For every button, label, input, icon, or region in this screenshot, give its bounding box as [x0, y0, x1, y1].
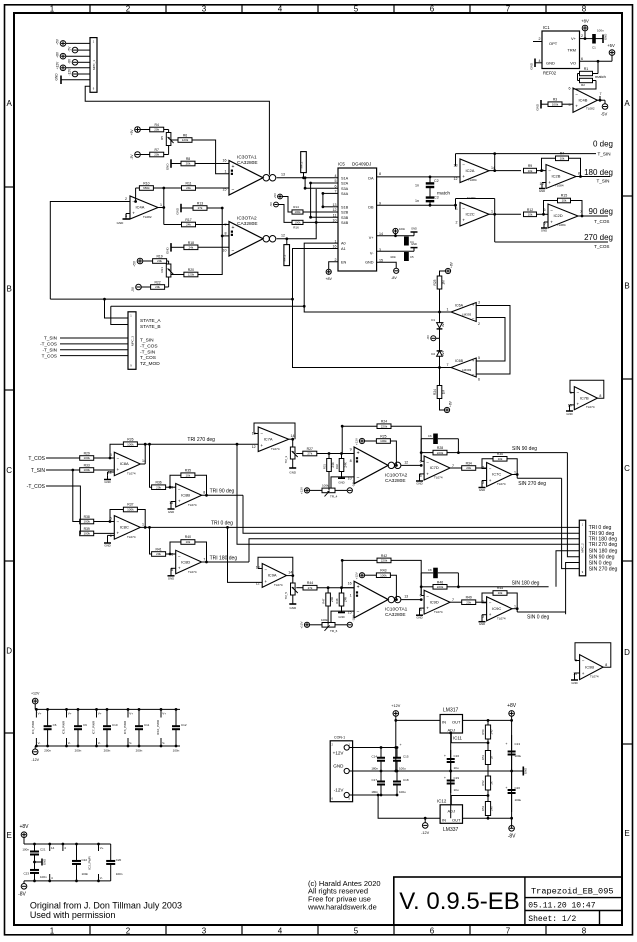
- svg-text:R41: R41: [155, 548, 161, 552]
- power terminal +8V at R23: [445, 261, 453, 273]
- op-amp IC2C TL084: [456, 196, 494, 226]
- svg-text:6: 6: [569, 87, 571, 91]
- svg-text:1n: 1n: [415, 184, 419, 188]
- svg-text:10k: 10k: [185, 540, 190, 544]
- svg-text:V-: V-: [100, 876, 103, 880]
- svg-text:7: 7: [452, 598, 454, 602]
- power terminal -12V decoupling rail: [31, 746, 39, 762]
- svg-text:T_SIN: T_SIN: [44, 336, 57, 341]
- svg-text:+: +: [548, 180, 551, 185]
- svg-text:R2: R2: [581, 83, 585, 87]
- svg-text:TL074: TL074: [586, 405, 595, 409]
- svg-text:S4A: S4A: [341, 192, 349, 196]
- svg-text:90 deg: 90 deg: [589, 207, 613, 216]
- svg-text:D: D: [624, 648, 630, 657]
- resistor R37 100k feedback IC8C: [110, 503, 147, 529]
- power terminal +12V at TR_A: [300, 487, 310, 494]
- svg-text:TRM: TRM: [567, 48, 576, 53]
- svg-text:20k: 20k: [156, 552, 161, 556]
- svg-text:100u: 100u: [399, 767, 406, 771]
- svg-text:8: 8: [203, 491, 205, 495]
- svg-text:1: 1: [50, 927, 55, 936]
- svg-text:GND: GND: [411, 227, 417, 231]
- power terminal -5V pulls: [269, 202, 292, 222]
- svg-text:GND: GND: [416, 482, 422, 486]
- svg-text:TL074: TL074: [274, 583, 283, 587]
- resistor R18 24k to OTA2 pin10: [166, 241, 230, 254]
- resistor R25 100k with +12V: [355, 435, 397, 466]
- svg-text:13: 13: [404, 595, 408, 599]
- svg-text:TL074: TL074: [127, 472, 136, 476]
- svg-text:-T_SIN: -T_SIN: [42, 348, 57, 353]
- svg-text:-T_COS: -T_COS: [140, 343, 158, 349]
- svg-text:TL082: TL082: [586, 107, 595, 111]
- svg-text:8: 8: [582, 5, 587, 14]
- svg-text:C2: C2: [434, 179, 439, 183]
- svg-text:+: +: [232, 164, 235, 170]
- svg-text:CA3280E: CA3280E: [237, 221, 258, 227]
- trimmer R21: [160, 264, 174, 277]
- svg-text:+: +: [444, 754, 446, 758]
- svg-text:-5V: -5V: [601, 112, 608, 117]
- resistor R33 100k: [80, 464, 94, 473]
- svg-text:GND: GND: [524, 768, 528, 774]
- terminal -12V CON-1: [334, 788, 350, 798]
- wire IC9C output: [512, 607, 519, 610]
- svg-text:2: 2: [581, 34, 583, 38]
- wire IC5 GND to -8V: [377, 262, 397, 268]
- svg-text:TL074: TL074: [497, 616, 506, 620]
- resistor R48 vertical: [335, 588, 347, 619]
- svg-text:OUT: OUT: [452, 818, 461, 823]
- svg-text:−: −: [472, 317, 475, 322]
- svg-text:100k: 100k: [294, 221, 301, 225]
- ground at IC8B: [168, 502, 176, 515]
- svg-text:C13: C13: [515, 742, 521, 746]
- svg-text:GND: GND: [541, 229, 547, 233]
- svg-text:V+: V+: [369, 236, 375, 240]
- svg-text:GND: GND: [176, 207, 180, 215]
- wire +8V / -8V rails row E: [24, 844, 111, 881]
- ground at IC9C: [479, 615, 487, 627]
- svg-text:TL074: TL074: [188, 503, 197, 507]
- svg-text:100k: 100k: [380, 573, 387, 577]
- svg-text:−: −: [232, 248, 235, 254]
- resistor R49 20k: [450, 596, 487, 605]
- svg-text:R12: R12: [527, 208, 533, 212]
- svg-text:C12: C12: [181, 723, 187, 727]
- power terminal -5V bias bottom: [131, 284, 151, 292]
- svg-text:+: +: [505, 742, 507, 746]
- svg-text:C20: C20: [515, 786, 521, 790]
- wires signal inputs to state connector: [60, 338, 128, 356]
- trimmer pot TR vertical at IC7A output: [284, 439, 298, 474]
- wire IC5 DA to IC2A: [377, 176, 460, 179]
- svg-text:8: 8: [225, 232, 227, 236]
- svg-text:+12V: +12V: [391, 704, 400, 708]
- title block box: [394, 877, 622, 925]
- svg-text:100k: 100k: [380, 439, 387, 443]
- power terminal -12V PSU: [421, 817, 429, 835]
- power terminal -8V rail row E: [18, 881, 27, 898]
- resistor R11 24k to OTA1 pin15: [182, 182, 230, 191]
- wire R33 to IC8A pin: [94, 469, 115, 471]
- power terminal +12V: [56, 61, 90, 71]
- OTA IC3OTA1 CA3280E: [223, 155, 286, 196]
- svg-text:IC9A: IC9A: [268, 573, 277, 578]
- svg-text:GND: GND: [289, 471, 297, 475]
- trimmer pot TR vertical at IC9A output: [284, 576, 298, 610]
- op-amp IC9D TL074: [420, 590, 454, 614]
- ground at IC4A pin3: [117, 214, 130, 226]
- svg-text:GND: GND: [55, 73, 59, 81]
- wire STATE_B from bus to connector: [111, 306, 304, 324]
- power terminal +5V: [56, 38, 90, 46]
- wire IC5 A1 to comparator IC6B output: [291, 249, 441, 369]
- svg-text:−: −: [357, 476, 360, 482]
- svg-text:TR_6: TR_6: [330, 629, 338, 633]
- svg-text:20k: 20k: [466, 600, 471, 604]
- wire decoupling rails +12V/-12V: [35, 709, 180, 746]
- resistor R41 20k input IC8D: [148, 526, 176, 556]
- trimmer R5: [160, 130, 174, 146]
- resistor divider chain R50-R53: [487, 720, 489, 818]
- svg-text:R21: R21: [160, 267, 164, 273]
- svg-text:−: −: [117, 456, 120, 461]
- svg-text:6: 6: [430, 5, 435, 14]
- svg-text:R36: R36: [155, 481, 161, 485]
- svg-text:GND: GND: [530, 62, 534, 70]
- svg-text:-12V: -12V: [31, 758, 39, 762]
- svg-text:+8V: +8V: [507, 703, 517, 709]
- svg-text:6: 6: [420, 459, 422, 463]
- svg-text:C5: C5: [410, 255, 414, 259]
- svg-text:-5V: -5V: [131, 286, 135, 292]
- wires IC5 S pins crisscross: [303, 176, 338, 222]
- svg-text:R7: R7: [155, 148, 159, 152]
- svg-text:www.haraldswerk.de: www.haraldswerk.de: [307, 903, 377, 912]
- svg-text:DB: DB: [368, 205, 374, 209]
- wire TRI 180 deg to bus: [202, 561, 249, 563]
- power terminal +8V rail row E: [19, 824, 29, 844]
- ground at IC2B pin10: [539, 183, 546, 194]
- svg-text:100n: 100n: [82, 872, 89, 876]
- resistor R31 vertical: [323, 454, 335, 491]
- svg-text:IC2_PWR: IC2_PWR: [88, 856, 92, 870]
- svg-text:IC3OTA1: IC3OTA1: [237, 155, 257, 161]
- resistor R17 24k to OTA2 pin9: [164, 218, 229, 227]
- svg-text:CA3280E: CA3280E: [237, 160, 258, 166]
- svg-text:Sheet: 1/2: Sheet: 1/2: [528, 915, 576, 924]
- wire LM317 ADJ to divider: [451, 733, 489, 744]
- resistor R12 10k: [524, 208, 537, 217]
- svg-text:15: 15: [348, 611, 352, 615]
- svg-text:CON-1: CON-1: [334, 736, 345, 740]
- svg-text:13: 13: [281, 173, 285, 177]
- svg-text:IC8B: IC8B: [181, 492, 190, 497]
- svg-text:24k: 24k: [186, 186, 191, 190]
- test point MP_2: [283, 239, 290, 266]
- svg-text:C: C: [6, 466, 12, 475]
- svg-text:+12V: +12V: [333, 751, 345, 756]
- svg-text:8: 8: [582, 927, 587, 936]
- svg-text:T_COS: T_COS: [28, 456, 45, 462]
- svg-text:24k: 24k: [188, 246, 193, 250]
- svg-text:R3: R3: [553, 98, 557, 102]
- wire IC5 A0 to comparator IC6A output: [303, 243, 441, 313]
- capacitor C13 100u: [505, 720, 521, 828]
- svg-text:TL082: TL082: [143, 215, 152, 219]
- svg-text:TRI 180 deg: TRI 180 deg: [210, 555, 238, 561]
- svg-text:C21: C21: [40, 848, 46, 852]
- connector CON-1 power input: [330, 736, 352, 802]
- svg-text:S2B: S2B: [341, 211, 349, 215]
- svg-text:−: −: [357, 610, 360, 616]
- svg-text:0 deg: 0 deg: [593, 140, 613, 149]
- svg-text:T_SIN: T_SIN: [596, 179, 609, 184]
- capacitor C14 180n: [371, 748, 385, 772]
- svg-text:CA3280E: CA3280E: [385, 612, 406, 618]
- svg-text:V+: V+: [162, 712, 166, 716]
- svg-text:−: −: [178, 554, 181, 559]
- svg-text:B: B: [7, 285, 12, 294]
- svg-text:6: 6: [430, 927, 435, 936]
- svg-text:10k: 10k: [498, 591, 503, 595]
- svg-text:1M: 1M: [441, 280, 445, 285]
- svg-text:IC1: IC1: [543, 25, 550, 30]
- svg-text:100k: 100k: [552, 102, 559, 106]
- svg-text:5: 5: [478, 356, 480, 360]
- svg-text:S2A: S2A: [341, 182, 349, 186]
- IC1 REF02 voltage reference: [539, 25, 584, 76]
- svg-text:IC9D: IC9D: [430, 599, 439, 604]
- op-amp IC8C TL074: [110, 516, 144, 540]
- svg-text:−: −: [264, 567, 267, 572]
- zener diode D2 3V3: [431, 338, 445, 385]
- wire STATE_A from bus to connector: [50, 298, 292, 318]
- svg-text:IC8C: IC8C: [120, 525, 129, 530]
- svg-text:R51: R51: [481, 754, 485, 760]
- op-amp IC9B TL074: [573, 655, 607, 680]
- svg-text:2: 2: [126, 927, 131, 936]
- svg-text:GND: GND: [411, 242, 417, 246]
- svg-text:100k: 100k: [321, 618, 328, 622]
- svg-text:V-: V-: [98, 741, 101, 745]
- svg-text:R48: R48: [335, 598, 339, 604]
- svg-text:+: +: [582, 671, 585, 676]
- capacitor C20 100u: [505, 771, 521, 812]
- svg-text:R11: R11: [186, 182, 192, 186]
- power terminal +8V at IC5 V+ and capacitor C4 100n: [377, 227, 418, 246]
- svg-text:10: 10: [223, 249, 227, 253]
- capacitor C22 100n: [72, 843, 89, 883]
- svg-text:6: 6: [478, 378, 480, 382]
- svg-text:100n: 100n: [390, 255, 396, 259]
- svg-text:-5V: -5V: [68, 46, 72, 52]
- comparator IC6A LM393: [447, 301, 481, 327]
- svg-text:100n: 100n: [173, 749, 180, 753]
- svg-text:7: 7: [506, 5, 511, 14]
- svg-text:GND: GND: [546, 61, 555, 66]
- svg-text:R6: R6: [183, 134, 187, 138]
- power terminal -12V: [68, 68, 90, 77]
- test point MP_1: [300, 152, 307, 178]
- wire T_COS to R29: [46, 457, 80, 459]
- svg-text:V+: V+: [571, 36, 577, 41]
- svg-text:4: 4: [278, 5, 283, 14]
- svg-text:T_COS: T_COS: [594, 219, 609, 224]
- svg-text:680k: 680k: [143, 186, 150, 190]
- power terminal -5V bias top: [130, 152, 150, 160]
- svg-text:B: B: [624, 282, 629, 291]
- svg-text:+: +: [426, 606, 429, 611]
- svg-text:6: 6: [420, 594, 422, 598]
- svg-text:GND: GND: [416, 616, 422, 620]
- svg-text:12: 12: [256, 582, 260, 586]
- svg-text:A: A: [624, 99, 630, 108]
- svg-text:GND: GND: [338, 615, 344, 619]
- op-amp IC8B TL074: [169, 484, 205, 508]
- svg-text:2: 2: [126, 5, 131, 14]
- svg-text:SIN 0 deg: SIN 0 deg: [589, 560, 612, 566]
- svg-text:C15: C15: [403, 755, 409, 759]
- power terminal +8V at IC5 EN: [325, 269, 332, 281]
- svg-text:T_SIN: T_SIN: [598, 151, 611, 156]
- capacitor C8 integrator: [421, 568, 458, 596]
- op-amp IC2A TL084: [454, 159, 496, 183]
- op-amp IC4B TL082: [569, 87, 602, 113]
- svg-text:R32: R32: [335, 464, 339, 470]
- svg-text:E: E: [624, 829, 629, 838]
- svg-text:220k: 220k: [381, 424, 388, 428]
- power terminal +12V PSU: [391, 704, 400, 771]
- op-amp IC7D TL074: [420, 456, 454, 480]
- OTA IC10OTA1 CA3280E: [348, 581, 409, 618]
- svg-text:2: 2: [478, 322, 480, 326]
- net labels state connector right: [140, 318, 161, 367]
- svg-text:MPC_1: MPC_1: [92, 60, 96, 70]
- svg-text:+8V: +8V: [325, 277, 332, 281]
- svg-text:IC8D: IC8D: [181, 559, 190, 564]
- capacitor C1 100n: [585, 29, 608, 50]
- svg-text:IC7D: IC7D: [430, 465, 439, 470]
- svg-text:6: 6: [581, 57, 583, 61]
- svg-text:1: 1: [491, 210, 493, 214]
- svg-text:match: match: [595, 74, 606, 79]
- svg-text:R7: R7: [560, 151, 565, 155]
- ground at IC8D: [168, 568, 176, 580]
- svg-text:3: 3: [202, 927, 207, 936]
- capacitor C16 10u: [444, 733, 459, 818]
- svg-text:TL084: TL084: [468, 178, 477, 182]
- svg-text:20k: 20k: [466, 466, 471, 470]
- wire SIN 270 into connector: [562, 478, 580, 568]
- svg-text:R22: R22: [154, 281, 160, 285]
- svg-text:IN: IN: [442, 719, 446, 724]
- svg-text:−: −: [550, 208, 553, 213]
- resistor R26 feedback IC8A: [110, 437, 258, 464]
- power terminal -5V: [68, 46, 90, 53]
- resistor R47 vertical: [322, 588, 334, 625]
- resistor R6 120k: [171, 134, 192, 143]
- svg-text:220k: 220k: [437, 451, 444, 455]
- svg-text:E: E: [7, 831, 12, 840]
- wire TRI 0 deg bus line: [140, 526, 579, 529]
- svg-text:C11: C11: [144, 723, 150, 727]
- svg-text:R28: R28: [437, 446, 443, 450]
- resistor R29 100k: [80, 452, 94, 461]
- svg-text:S3B: S3B: [341, 216, 349, 220]
- wire SIN 90 deg: [458, 452, 567, 454]
- svg-text:8: 8: [578, 172, 580, 176]
- svg-text:GND: GND: [43, 859, 47, 865]
- svg-text:LM317: LM317: [443, 707, 459, 713]
- svg-text:+12V: +12V: [300, 487, 304, 494]
- svg-text:IC9C: IC9C: [492, 606, 501, 611]
- connector MPC_1 power header: [90, 38, 97, 93]
- svg-text:3V3: 3V3: [441, 322, 445, 327]
- svg-text:9: 9: [350, 447, 352, 451]
- svg-text:GND: GND: [539, 189, 545, 193]
- svg-text:+: +: [357, 451, 360, 457]
- svg-text:10k: 10k: [498, 457, 503, 461]
- svg-text:7: 7: [506, 927, 511, 936]
- svg-text:V+: V+: [68, 712, 72, 716]
- op-amp IC4A TL082: [125, 196, 162, 219]
- svg-text:REF02: REF02: [543, 71, 557, 76]
- svg-text:S4B: S4B: [341, 221, 349, 225]
- wire IC5 EN to +8V: [329, 262, 338, 269]
- resistor R3 100k to IC4B: [536, 98, 574, 111]
- svg-text:C3: C3: [434, 196, 439, 200]
- svg-text:GND: GND: [166, 246, 170, 254]
- wire GND rail PSU: [349, 770, 523, 773]
- svg-text:GND: GND: [365, 260, 374, 264]
- svg-text:100u: 100u: [515, 798, 522, 802]
- svg-text:4: 4: [278, 927, 283, 936]
- svg-text:R29: R29: [84, 452, 90, 456]
- power terminal -5V: [601, 104, 608, 117]
- svg-text:C23: C23: [23, 872, 29, 876]
- svg-text:+: +: [132, 211, 135, 216]
- svg-text:-12V: -12V: [334, 788, 345, 793]
- svg-text:270 deg: 270 deg: [584, 233, 613, 242]
- svg-text:TRI 0 deg: TRI 0 deg: [211, 521, 233, 527]
- svg-text:R43: R43: [380, 569, 386, 573]
- svg-text:+5V: +5V: [133, 260, 137, 267]
- wire from MPC_1 pin 9 to OTA1 output node: [85, 86, 269, 175]
- resistor R53 vertical divider: [481, 802, 494, 816]
- svg-text:−: −: [472, 372, 475, 377]
- wire IC1 VO to +5V terminal: [580, 55, 613, 62]
- wire R23 to IC6A output node: [440, 289, 452, 323]
- svg-text:STATE_A: STATE_A: [140, 318, 161, 324]
- svg-text:6: 6: [110, 534, 112, 538]
- svg-text:-5V: -5V: [269, 202, 273, 207]
- ground at C21/C23 node: [33, 859, 46, 866]
- regulator LM317 IC11: [440, 707, 462, 740]
- power terminal +8V PSU: [507, 703, 517, 721]
- svg-text:D: D: [6, 647, 12, 656]
- wire R29 to IC8A: [94, 457, 115, 460]
- op-amp IC9C TL074: [482, 597, 516, 621]
- power stub IC7_PWR: [91, 708, 101, 747]
- svg-text:10u: 10u: [454, 788, 459, 792]
- resistor R50 vertical divider: [481, 725, 494, 739]
- svg-text:IC7C: IC7C: [492, 472, 501, 477]
- svg-text:D2: D2: [431, 352, 435, 356]
- svg-text:IC6_PWR: IC6_PWR: [123, 720, 127, 734]
